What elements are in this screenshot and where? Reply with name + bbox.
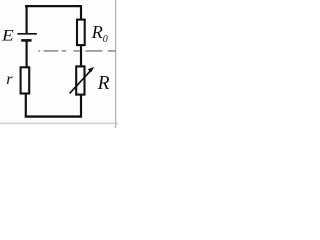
wire top rail	[25, 5, 82, 7]
battery E : short thick plate	[21, 39, 31, 42]
wire left branch lower (r to bottom rail)	[25, 94, 27, 118]
wire right branch upper (R0 to top rail)	[80, 5, 82, 20]
rheostat R (arrow)	[70, 67, 95, 94]
svg-text:r: r	[6, 70, 13, 88]
wire right branch middle (R to R0)	[80, 45, 82, 67]
rheostat R (body)	[76, 66, 84, 94]
svg-text:E: E	[1, 26, 14, 44]
dash-dot fold line	[38, 50, 116, 52]
resistor R0 (body)	[77, 20, 85, 45]
wire left branch middle (battery to resistor r)	[26, 41, 28, 67]
page rule bottom (faint horizontal border)	[0, 122, 118, 124]
resistor r (body)	[21, 67, 30, 93]
svg-text:R: R	[97, 73, 110, 94]
page rule right (faint vertical border)	[115, 0, 117, 128]
wire right branch lower (bottom rail to rheostat R)	[80, 95, 82, 118]
wire left branch upper (top rail to battery)	[26, 5, 28, 33]
background	[0, 0, 118, 128]
wire bottom rail	[25, 115, 82, 117]
battery E : long plate	[17, 33, 37, 35]
